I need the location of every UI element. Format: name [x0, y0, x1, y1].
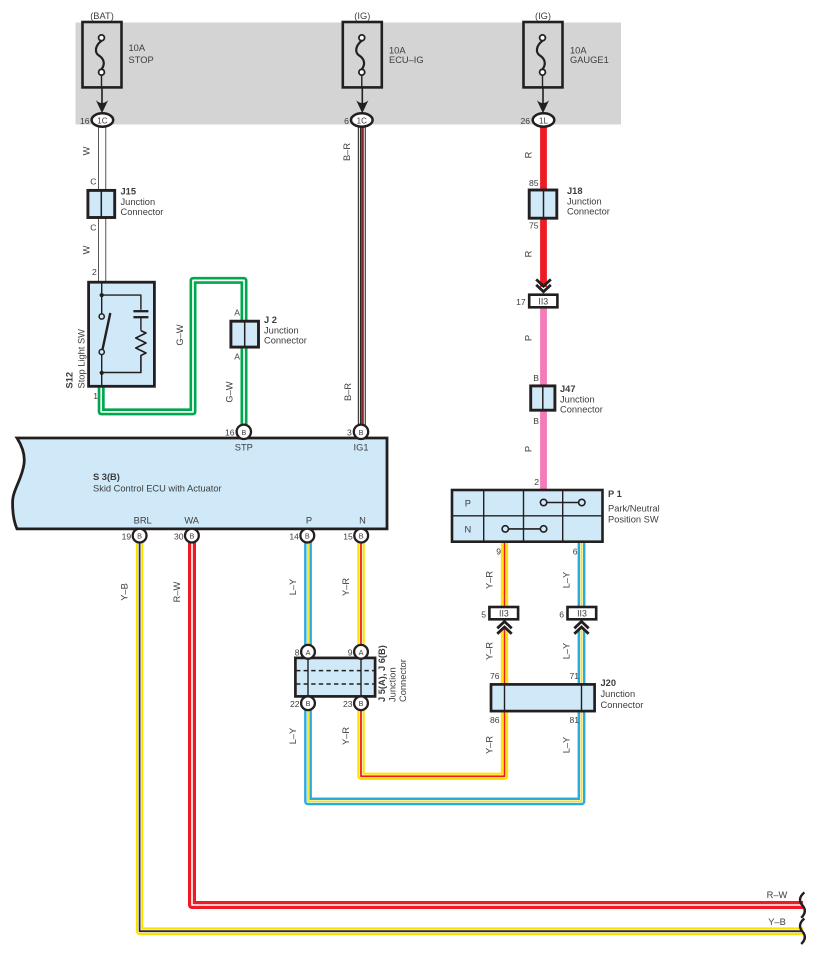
wire L-Y from ECU P to J5 8A — [304, 542, 312, 652]
pin label C above J15 — [90, 177, 96, 187]
wire label Y-R above J20 — [485, 642, 495, 660]
svg-text:B: B — [359, 532, 364, 541]
svg-text:A: A — [359, 648, 364, 657]
svg-text:J15: J15 — [121, 187, 137, 197]
svg-text:A: A — [234, 352, 240, 362]
svg-text:Stop Light SW: Stop Light SW — [77, 329, 87, 389]
svg-text:Y–R: Y–R — [485, 736, 495, 754]
svg-text:L–Y: L–Y — [562, 643, 572, 660]
wire L-Y from J5 22B to J20 pin81 — [308, 703, 582, 801]
wire R from 1L to II3 pin17 — [540, 122, 547, 287]
svg-text:P: P — [524, 335, 534, 341]
svg-text:Y–R: Y–R — [485, 642, 495, 660]
wire label R-W — [172, 581, 182, 602]
svg-text:L–Y: L–Y — [288, 579, 298, 596]
svg-text:6: 6 — [344, 116, 349, 126]
node 22 B at J5 — [290, 696, 315, 710]
node 30 B WA — [174, 529, 199, 543]
pin number 71 at J20 — [569, 671, 579, 681]
pin number 2 at S12 — [92, 267, 97, 277]
svg-text:G–W: G–W — [175, 324, 185, 345]
svg-text:L–Y: L–Y — [562, 572, 572, 589]
pin label B above J47 — [533, 373, 539, 383]
svg-text:10A: 10A — [570, 45, 587, 55]
svg-text:B: B — [306, 699, 311, 708]
wire label P lower — [524, 446, 534, 452]
chevron arrows from II3 6 — [574, 622, 588, 634]
svg-text:5: 5 — [481, 609, 486, 619]
svg-text:STP: STP — [235, 443, 253, 453]
svg-text:30: 30 — [174, 532, 184, 542]
svg-text:10A: 10A — [129, 43, 146, 53]
svg-text:GAUGE1: GAUGE1 — [570, 55, 609, 65]
svg-text:1C: 1C — [357, 116, 367, 125]
svg-text:Junction: Junction — [601, 689, 636, 699]
wire label B-R lower — [343, 383, 353, 401]
svg-text:1L: 1L — [539, 116, 548, 125]
svg-text:II3: II3 — [538, 297, 548, 307]
wire B-R from 1C to ECU IG1 — [358, 122, 366, 427]
wire label Y-R below P1 — [485, 571, 495, 589]
pin number 6 below P1 — [573, 547, 578, 557]
pin label A below J2 — [234, 352, 240, 362]
node 15 B N — [343, 529, 368, 543]
node 8 A at J5 — [295, 645, 315, 659]
svg-text:Connector: Connector — [264, 336, 307, 346]
fuse F2 10A ECU-IG — [343, 11, 424, 88]
wire L-Y from II3 chevron to J20 pin71 — [578, 629, 586, 685]
svg-text:R: R — [524, 250, 534, 257]
junction connector J20 — [491, 678, 643, 711]
connector II3 pin 17 — [516, 295, 557, 308]
svg-text:19: 19 — [122, 532, 132, 542]
svg-text:L–Y: L–Y — [288, 728, 298, 745]
svg-text:(BAT): (BAT) — [90, 11, 114, 21]
svg-text:2: 2 — [92, 267, 97, 277]
svg-text:C: C — [90, 177, 96, 187]
svg-text:A: A — [234, 308, 240, 318]
svg-text:6: 6 — [573, 547, 578, 557]
svg-text:14: 14 — [289, 532, 299, 542]
svg-text:6: 6 — [559, 609, 564, 619]
switch contacts inside S12 — [99, 282, 141, 386]
svg-text:8: 8 — [295, 648, 300, 658]
wire Y-R from P1 pin9 to II3 pin5 — [501, 541, 508, 607]
svg-text:Junction: Junction — [560, 394, 595, 404]
junction connector J5(A) J6(B) — [295, 645, 408, 702]
svg-text:B: B — [533, 416, 539, 426]
svg-text:Connector: Connector — [560, 405, 603, 415]
svg-text:Skid Control ECU with Actuator: Skid Control ECU with Actuator — [93, 484, 222, 494]
ECU S3(B) box with torn left edge — [13, 438, 387, 529]
svg-text:J47: J47 — [560, 384, 576, 394]
svg-text:17: 17 — [516, 297, 526, 307]
wire Y-B from ECU BRL to bottom right — [140, 542, 803, 931]
svg-text:22: 22 — [290, 699, 300, 709]
chevron arrows into II3 17 — [536, 279, 551, 291]
svg-text:Junction: Junction — [264, 325, 299, 335]
arrow from F3 to node 1L — [537, 87, 549, 113]
wire label R lower — [524, 250, 534, 257]
svg-text:P: P — [465, 499, 471, 509]
svg-text:10A: 10A — [389, 45, 406, 55]
svg-text:W: W — [82, 245, 92, 254]
svg-text:J18: J18 — [567, 186, 583, 196]
wire label Y-B bottom — [768, 917, 786, 927]
pin number 9 below P1 — [496, 547, 501, 557]
wire label P upper — [524, 335, 534, 341]
svg-text:B: B — [533, 373, 539, 383]
resistor inside S12 — [102, 331, 146, 373]
wire label L-Y above J5 — [288, 579, 298, 596]
svg-text:15: 15 — [343, 532, 353, 542]
wire label Y-B — [120, 583, 130, 601]
wire label L-Y below P1 — [562, 572, 572, 589]
node 23 B at J5 — [343, 696, 368, 710]
wire L-Y from P1 pin6 to II3 pin6 — [578, 541, 586, 607]
P1 P-row contact — [540, 499, 585, 505]
break symbol R-W wire — [800, 892, 805, 917]
svg-text:9: 9 — [496, 547, 501, 557]
svg-text:J 2: J 2 — [264, 315, 277, 325]
node 14 B P — [289, 529, 314, 543]
svg-text:26: 26 — [521, 116, 531, 126]
svg-text:23: 23 — [343, 699, 353, 709]
node 9 A at J5 — [348, 645, 368, 659]
svg-text:Park/Neutral: Park/Neutral — [608, 504, 660, 514]
wire label L-Y above J20 — [562, 643, 572, 660]
chevron arrows from II3 5 — [497, 622, 511, 634]
junction connector J2 — [231, 315, 307, 347]
svg-text:IG1: IG1 — [354, 443, 369, 453]
svg-text:R–W: R–W — [172, 581, 182, 602]
svg-text:Connector: Connector — [567, 207, 610, 217]
node 16 B STP — [225, 425, 251, 439]
svg-text:9: 9 — [348, 648, 353, 658]
svg-text:B: B — [359, 428, 364, 437]
svg-text:1: 1 — [93, 391, 98, 401]
switch S12 Stop Light SW box — [65, 282, 155, 388]
svg-text:A: A — [306, 648, 311, 657]
junction connector J47 — [531, 384, 603, 415]
wire R-W from ECU WA to bottom right — [192, 542, 803, 905]
svg-text:Y–R: Y–R — [341, 578, 351, 596]
wire G-W from S12 pin1 via J2 to ECU STP — [101, 280, 244, 427]
svg-text:86: 86 — [490, 715, 500, 725]
wire label Y-R above J5 — [341, 578, 351, 596]
wire label Y-R below J20 — [485, 736, 495, 754]
svg-text:II3: II3 — [499, 609, 509, 619]
wire label W lower — [82, 245, 92, 254]
pin label B below J47 — [533, 416, 539, 426]
capacitor inside S12 — [133, 311, 148, 330]
node 19 B BRL — [122, 529, 147, 543]
svg-text:P: P — [524, 446, 534, 452]
svg-text:J20: J20 — [601, 678, 617, 688]
svg-text:S12: S12 — [65, 372, 75, 389]
svg-text:STOP: STOP — [129, 55, 154, 65]
svg-text:75: 75 — [529, 221, 539, 231]
svg-text:76: 76 — [490, 671, 500, 681]
wire W (white) from 1C to S12 — [98, 122, 106, 283]
svg-text:R–W: R–W — [767, 890, 788, 900]
P1 N-row contact — [502, 526, 547, 532]
break symbol Y-B wire — [800, 919, 805, 944]
svg-text:B: B — [241, 428, 246, 437]
wire Y-R from J5 23B to J20 pin86 — [361, 703, 505, 776]
svg-text:B: B — [189, 532, 194, 541]
svg-text:71: 71 — [569, 671, 579, 681]
svg-text:B: B — [137, 532, 142, 541]
svg-text:Connector: Connector — [601, 700, 644, 710]
svg-text:P: P — [306, 516, 312, 526]
svg-text:II3: II3 — [577, 609, 587, 619]
pin number 75 at J18 — [529, 221, 539, 231]
pin number 1 at S12 — [93, 391, 98, 401]
svg-text:N: N — [464, 525, 471, 535]
svg-text:B–R: B–R — [342, 143, 352, 161]
arrow from F2 to node 1C — [356, 87, 368, 113]
fuse F1 10A STOP — [83, 11, 154, 88]
svg-text:Y–B: Y–B — [768, 917, 786, 927]
svg-text:81: 81 — [569, 715, 579, 725]
wire P (pink) from II3 to P1 pin2 — [540, 307, 547, 490]
svg-text:3: 3 — [347, 428, 352, 438]
svg-text:Y–R: Y–R — [485, 571, 495, 589]
junction connector J15 — [88, 187, 164, 218]
svg-text:ECU–IG: ECU–IG — [389, 55, 424, 65]
svg-text:Connector: Connector — [121, 207, 164, 217]
svg-text:B: B — [305, 532, 310, 541]
connector II3 pin 6 — [559, 607, 596, 619]
svg-text:Junction: Junction — [121, 197, 156, 207]
node 26 1L — [521, 113, 555, 126]
svg-text:Y–R: Y–R — [341, 727, 351, 745]
wire label R-W bottom — [767, 890, 788, 900]
wire label R upper — [524, 151, 534, 158]
node 3 B IG1 — [347, 425, 368, 439]
svg-text:B: B — [359, 699, 364, 708]
svg-text:(IG): (IG) — [535, 11, 551, 21]
wire label L-Y below J5 — [288, 728, 298, 745]
wire label L-Y below J20 — [562, 737, 572, 754]
svg-text:G–W: G–W — [225, 381, 235, 402]
svg-text:R: R — [524, 151, 534, 158]
wire label Y-R below J5 — [341, 727, 351, 745]
svg-text:16: 16 — [225, 428, 235, 438]
connector II3 pin 5 — [481, 607, 518, 619]
pin number 76 at J20 — [490, 671, 500, 681]
svg-text:WA: WA — [184, 516, 199, 526]
svg-text:J 5(A), J 6(B): J 5(A), J 6(B) — [377, 645, 387, 702]
fuse F3 10A GAUGE1 — [524, 11, 609, 88]
svg-text:BRL: BRL — [134, 516, 152, 526]
pin number 85 at J18 — [529, 178, 539, 188]
svg-text:(IG): (IG) — [354, 11, 370, 21]
svg-text:S 3(B): S 3(B) — [93, 472, 120, 482]
svg-text:P 1: P 1 — [608, 489, 622, 499]
pin number 86 at J20 — [490, 715, 500, 725]
svg-text:Connector: Connector — [398, 659, 408, 702]
svg-text:85: 85 — [529, 178, 539, 188]
node 16 1C — [80, 113, 113, 126]
pin label C below J15 — [90, 223, 96, 233]
pin label A above J2 — [234, 308, 240, 318]
wire Y-R from ECU N to J5 9A — [357, 542, 364, 652]
node 6 1C — [344, 113, 372, 126]
svg-text:L–Y: L–Y — [562, 737, 572, 754]
junction connector J18 — [529, 186, 610, 218]
svg-text:B–R: B–R — [343, 383, 353, 401]
svg-text:16: 16 — [80, 116, 90, 126]
wire label G-W right — [225, 381, 235, 402]
svg-text:2: 2 — [534, 477, 539, 487]
wire label W upper — [82, 146, 92, 155]
gray power bus band — [76, 23, 622, 125]
pin number 2 at P1 — [534, 477, 539, 487]
wire Y-R from II3 chevron to J20 pin76 — [501, 629, 508, 685]
svg-text:W: W — [82, 146, 92, 155]
pin number 81 at J20 — [569, 715, 579, 725]
svg-text:C: C — [90, 223, 96, 233]
svg-text:1C: 1C — [97, 116, 107, 125]
wire label G-W left — [175, 324, 185, 345]
svg-text:N: N — [359, 516, 366, 526]
svg-text:Y–B: Y–B — [120, 583, 130, 601]
wire label B-R upper — [342, 143, 352, 161]
arrow from F1 to node 1C — [96, 87, 108, 113]
svg-text:Junction: Junction — [567, 196, 602, 206]
switch P1 Park/Neutral Position SW — [452, 489, 660, 542]
svg-text:Position SW: Position SW — [608, 515, 659, 525]
svg-text:Junction: Junction — [388, 667, 398, 702]
